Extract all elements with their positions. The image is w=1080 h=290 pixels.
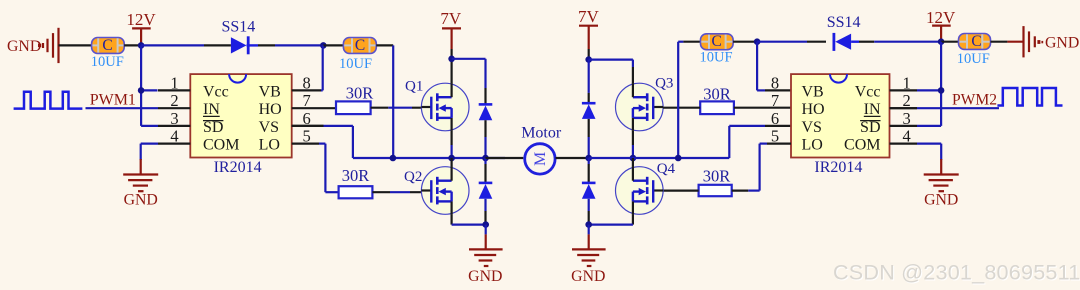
resistor R3 30R top-right <box>663 85 791 115</box>
wire Q2 source to ground node <box>452 214 486 224</box>
diode D4 SS14 right <box>757 14 941 51</box>
power 12V right <box>926 8 956 42</box>
wire Q2 drain <box>451 158 453 167</box>
svg-text:M: M <box>532 152 549 166</box>
junction <box>482 221 489 228</box>
svg-text:6: 6 <box>771 109 779 128</box>
wire <box>275 44 323 46</box>
svg-text:IR2014: IR2014 <box>214 159 262 176</box>
svg-text:Q4: Q4 <box>657 161 676 177</box>
svg-text:30R: 30R <box>346 83 374 102</box>
svg-text:10UF: 10UF <box>957 51 990 67</box>
svg-text:VS: VS <box>259 119 279 136</box>
svg-text:7: 7 <box>771 91 779 110</box>
svg-text:C: C <box>102 37 112 54</box>
junction <box>585 221 592 228</box>
wire 12V rail down to pins <box>141 45 158 126</box>
ground GND under U1 <box>123 159 158 208</box>
wire <box>59 44 92 46</box>
wire Q1 drain <box>451 59 453 83</box>
svg-text:COM: COM <box>844 137 880 154</box>
svg-text:10UF: 10UF <box>699 50 732 66</box>
wire pin5 to gate resistor <box>319 144 339 193</box>
resistor R4 30R bottom-right <box>663 167 748 197</box>
wire 12V rail down right chip <box>917 42 941 126</box>
svg-text:12V: 12V <box>926 8 956 27</box>
diode D1 freewheel lower-left <box>479 158 493 225</box>
transistor Q3 <box>616 76 674 131</box>
diode D5 freewheel lower-right <box>582 158 596 225</box>
svg-text:Q1: Q1 <box>405 79 423 95</box>
resistor R1 30R top-left <box>336 83 431 114</box>
svg-text:7V: 7V <box>578 7 600 26</box>
wire Q1 source to VS node <box>451 131 453 158</box>
junction <box>938 38 945 45</box>
svg-text:VS: VS <box>802 119 822 136</box>
wire 7V to Q3 drain <box>589 60 633 84</box>
wire <box>392 45 394 158</box>
junction <box>675 155 682 162</box>
junction <box>448 56 455 63</box>
svg-text:5: 5 <box>302 127 310 146</box>
svg-text:SD: SD <box>203 119 223 136</box>
ground GND bottom-right <box>571 225 605 285</box>
svg-text:12V: 12V <box>126 10 156 29</box>
node PWM1 <box>86 91 159 108</box>
svg-text:10UF: 10UF <box>339 56 372 72</box>
wire VS row (pin6 to motor) <box>292 126 505 158</box>
diode D2 freewheel upper-left <box>479 88 493 158</box>
svg-text:10UF: 10UF <box>91 54 124 70</box>
junction <box>448 155 455 162</box>
svg-text:GND: GND <box>924 191 958 208</box>
wire pin8 up to bootstrap rail <box>321 45 323 90</box>
capacitor C1 10UF <box>91 37 124 70</box>
junction <box>630 155 637 162</box>
svg-text:HO: HO <box>802 101 825 118</box>
svg-text:Vcc: Vcc <box>203 83 229 100</box>
svg-text:GND: GND <box>7 38 41 55</box>
junction <box>482 155 489 162</box>
svg-text:GND: GND <box>571 268 605 285</box>
svg-text:3: 3 <box>902 109 910 128</box>
svg-text:1: 1 <box>170 73 178 92</box>
power 12V left <box>126 10 156 45</box>
svg-text:PWM2: PWM2 <box>952 91 997 108</box>
junction <box>585 56 592 63</box>
wire pin4 right to ground <box>917 144 941 160</box>
wire pin4 to ground <box>141 144 158 160</box>
svg-text:C: C <box>712 33 722 50</box>
op-amp U1 IR2014 left driver IC <box>158 73 336 176</box>
node PWM2 <box>890 91 1000 108</box>
svg-text:IN: IN <box>864 101 881 118</box>
svg-text:SS14: SS14 <box>222 19 256 36</box>
wire <box>124 44 141 46</box>
svg-text:CSDN @2301_80695511: CSDN @2301_80695511 <box>833 260 1080 285</box>
svg-text:PWM1: PWM1 <box>90 91 136 108</box>
svg-text:GND: GND <box>124 191 158 208</box>
svg-text:GND: GND <box>468 268 502 285</box>
svg-text:4: 4 <box>170 127 178 146</box>
wire <box>323 44 343 46</box>
wire <box>376 44 393 46</box>
svg-text:LO: LO <box>259 137 280 154</box>
svg-text:Motor: Motor <box>521 124 562 141</box>
svg-text:3: 3 <box>170 109 178 128</box>
wire <box>141 44 204 46</box>
diode D1 SS14 left <box>204 19 275 55</box>
wire pin8 right chip <box>757 42 791 91</box>
svg-text:C: C <box>355 37 365 54</box>
junction <box>585 155 592 162</box>
svg-text:30R: 30R <box>342 166 370 185</box>
wire Q4 drain <box>632 158 634 167</box>
svg-text:8: 8 <box>771 73 779 92</box>
wire VS row right (pin6) <box>589 126 791 158</box>
svg-text:SD: SD <box>860 119 880 136</box>
PWM waveform left <box>14 92 83 109</box>
motor M1 <box>486 124 589 174</box>
transistor Q4 <box>616 161 676 214</box>
wire Q3 source to VS node <box>632 131 634 158</box>
junction <box>320 42 327 49</box>
svg-text:2: 2 <box>170 91 178 110</box>
svg-text:4: 4 <box>902 127 910 146</box>
svg-text:8: 8 <box>302 73 310 92</box>
junction <box>754 38 761 45</box>
svg-text:C: C <box>971 33 981 50</box>
svg-text:LO: LO <box>802 137 823 154</box>
svg-text:IN: IN <box>203 101 220 118</box>
svg-text:COM: COM <box>203 137 239 154</box>
op-amp U2 IR2014 right driver IC <box>771 73 917 176</box>
junction <box>938 87 945 94</box>
ground GND bottom-left <box>468 225 502 285</box>
junction <box>138 42 145 49</box>
junction <box>138 87 145 94</box>
svg-text:Q3: Q3 <box>655 76 673 92</box>
ground GND top-left (sideways power ground) <box>7 28 59 63</box>
ground GND top-right (sideways) <box>1007 26 1079 57</box>
capacitor C4 10UF <box>941 33 1007 67</box>
capacitor C2 10UF <box>339 37 376 72</box>
capacitor C3 10UF <box>678 33 757 158</box>
svg-text:GND: GND <box>1045 35 1079 52</box>
svg-text:Vcc: Vcc <box>855 83 881 100</box>
svg-text:IR2014: IR2014 <box>814 159 862 176</box>
diode D3 freewheel upper-right <box>582 60 596 158</box>
resistor R2 30R bottom-left <box>339 166 431 198</box>
wire Q4 source to ground node <box>589 214 633 224</box>
svg-text:1: 1 <box>902 73 910 92</box>
junction <box>390 155 397 162</box>
svg-text:SS14: SS14 <box>827 14 861 31</box>
power 7V right <box>578 7 600 60</box>
ground GND under U2 <box>924 159 959 208</box>
svg-text:HO: HO <box>259 101 282 118</box>
svg-text:7V: 7V <box>440 9 462 28</box>
svg-text:VB: VB <box>802 83 824 100</box>
PWM waveform right <box>997 88 1062 106</box>
svg-text:7: 7 <box>302 91 310 110</box>
svg-text:30R: 30R <box>703 167 731 186</box>
wire to D2 column <box>452 59 486 88</box>
svg-text:Q2: Q2 <box>404 169 422 185</box>
transistor Q2 <box>404 167 469 215</box>
transistor Q1 <box>405 79 469 131</box>
power 7V left <box>440 9 462 59</box>
wire pin5 right to gate resistor <box>748 144 791 191</box>
svg-text:VB: VB <box>259 83 281 100</box>
